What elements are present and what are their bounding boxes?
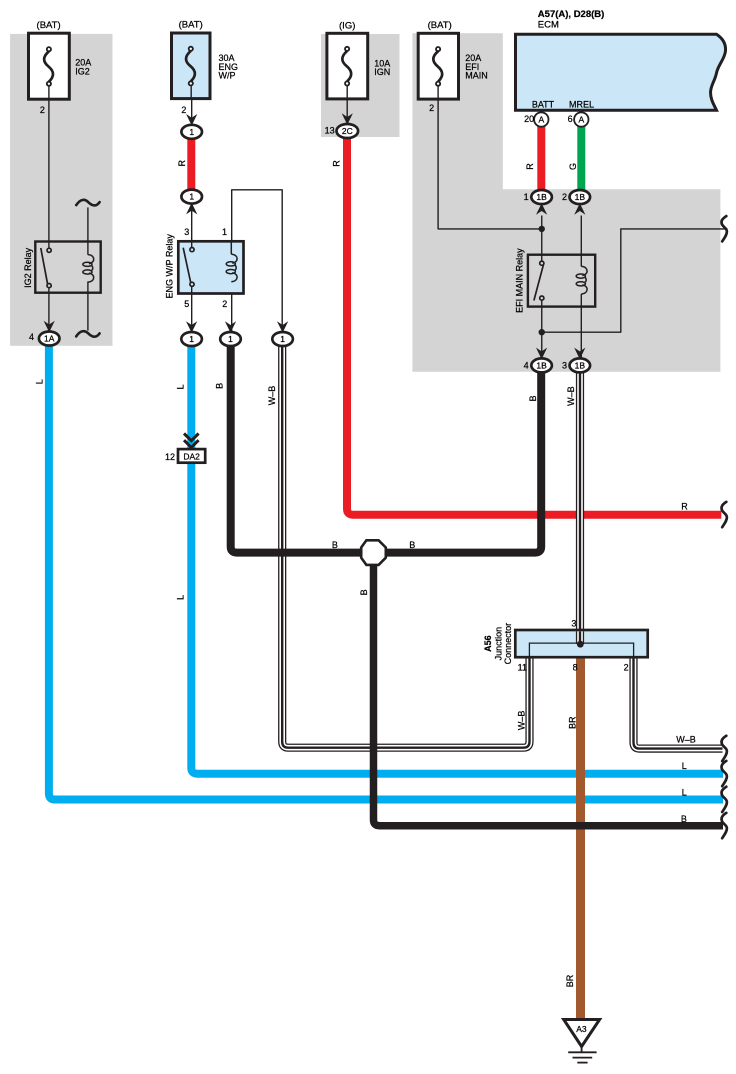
svg-text:EFI MAIN Relay: EFI MAIN Relay (515, 248, 525, 313)
svg-text:B: B (681, 814, 687, 824)
cut squiggle right edge (L lower) (722, 787, 727, 812)
svg-text:A: A (578, 115, 584, 125)
connector DA2 box (178, 449, 205, 463)
wire B (black) octagon junction to EFI relay 4(1B) (386, 372, 541, 553)
coil continuation squiggle top (IG2) (76, 200, 99, 206)
wire L (blue) ENG W/P to DA2 (187, 346, 195, 450)
wire fuse IG2 pin2 to IG2 relay switch (48, 86, 50, 248)
arrow up below connector (to ENG W/P relay) (186, 203, 197, 215)
svg-text:DA2: DA2 (183, 451, 200, 461)
svg-text:1B: 1B (575, 360, 586, 370)
svg-text:A56: A56 (483, 635, 493, 652)
relay K3 EFI MAIN Relay (528, 255, 595, 307)
arrow down into connector (ENG W/P pin5) (186, 321, 197, 333)
connector oval 1B (pin4) (531, 358, 552, 372)
svg-text:IG2: IG2 (75, 66, 90, 76)
svg-text:B: B (409, 540, 415, 550)
svg-text:2C: 2C (342, 126, 353, 136)
gray panel (EFI MAIN fuse + relay block) (412, 33, 720, 372)
svg-text:Connector: Connector (503, 623, 513, 665)
ECM pin 6 circle A (574, 112, 588, 126)
connector oval 1 (W-B branch) (272, 332, 293, 346)
ECM pin 20 circle A (534, 112, 548, 126)
wire node to EFI relay switch (541, 216, 543, 262)
svg-text:3: 3 (562, 361, 567, 371)
wire G (green) ECM MREL (577, 126, 585, 192)
connector oval 1 (ENG W/P pin5) (181, 332, 202, 346)
svg-text:BATT: BATT (532, 99, 555, 109)
svg-text:A57(A), D28(B): A57(A), D28(B) (538, 9, 605, 20)
arrow down into 4(1B) (536, 348, 547, 360)
THIN WIRES (49, 86, 728, 360)
svg-text:B: B (215, 383, 225, 389)
connector oval 1B (pin1) (531, 190, 552, 204)
wire fuse ENG W/P pin2 to connector (191, 99, 193, 126)
ground hatching (568, 1047, 596, 1063)
svg-text:4: 4 (524, 361, 529, 371)
svg-text:2: 2 (40, 105, 45, 115)
svg-text:W–B: W–B (676, 735, 696, 745)
svg-text:BR: BR (568, 716, 578, 729)
connector oval 1B (pin2) (570, 190, 591, 204)
svg-text:R: R (525, 163, 535, 170)
wire IG2 relay coil top branch (87, 207, 89, 254)
connector oval 1 (to ENG W/P relay) (181, 190, 202, 204)
svg-text:L: L (682, 788, 687, 798)
svg-text:B: B (528, 395, 538, 401)
svg-text:1B: 1B (536, 192, 547, 202)
svg-text:Junction: Junction (493, 627, 503, 661)
svg-text:12: 12 (165, 452, 175, 462)
svg-text:4: 4 (29, 332, 34, 342)
svg-text:W–B: W–B (566, 386, 576, 406)
junction node dot (EFI relay out) (539, 329, 545, 335)
wire ENG W/P relay pin5 to connector (191, 286, 193, 333)
svg-text:MREL: MREL (569, 99, 594, 109)
svg-text:L: L (175, 384, 185, 389)
wire IG2 relay coil bottom branch (87, 281, 89, 330)
svg-text:A: A (538, 115, 544, 125)
wire W-B from A56 pin 2 to right edge (634, 657, 723, 749)
arrow down into 3(1B) (574, 348, 585, 360)
svg-text:ECM: ECM (538, 19, 559, 30)
fuse F1 20A IG2 (29, 33, 70, 100)
svg-text:1: 1 (189, 192, 194, 202)
COLORED WIRES (49, 126, 723, 1020)
svg-text:W–B: W–B (517, 711, 527, 731)
svg-text:MAIN: MAIN (465, 70, 488, 80)
wire R (red) from 2C to right edge (347, 138, 721, 515)
svg-text:R: R (177, 160, 187, 167)
arrow up below 2(1B) (574, 203, 585, 215)
fuse F2 30A ENG W/P (172, 33, 211, 100)
svg-text:1: 1 (280, 334, 285, 344)
connector oval 1A (39, 124, 590, 372)
wire fuse IGN pin13 to connector 2C (346, 86, 348, 127)
svg-text:3: 3 (571, 619, 576, 629)
svg-text:2: 2 (222, 299, 227, 309)
svg-text:B: B (359, 589, 369, 595)
cut squiggle right edge (EFI branch) (722, 216, 727, 241)
wire W-B from ENG W/P column to A56 pin 11 (282, 346, 529, 748)
svg-text:A3: A3 (576, 1024, 587, 1034)
fuse F4 20A EFI MAIN (418, 33, 458, 100)
svg-text:1: 1 (228, 334, 233, 344)
arrow up below 1(1B) (536, 203, 547, 215)
arrow down into connector (fuse ENG W/P) (186, 114, 197, 126)
connector oval 1 (ENG W/P pin2) (220, 332, 241, 346)
gray panel (IG fuse block) (321, 34, 400, 137)
cut squiggle right edge (W-B) (722, 736, 727, 761)
svg-text:W/P: W/P (219, 70, 236, 80)
arrow down into 2C (342, 113, 353, 125)
fuse F3 10A IGN (327, 33, 368, 100)
wire EFI relay switch to connector 4(1B) (541, 300, 543, 360)
wire ENG W/P relay coil pin1 branch (232, 190, 283, 333)
svg-text:20: 20 (524, 114, 534, 124)
svg-text:2: 2 (429, 103, 434, 113)
svg-text:R: R (332, 160, 342, 167)
svg-text:W–B: W–B (267, 386, 277, 406)
svg-text:1: 1 (222, 227, 227, 237)
connector DA2 chevrons (184, 434, 199, 448)
wire connector 2(1B) to EFI relay coil (580, 216, 582, 267)
svg-text:L: L (682, 761, 687, 771)
svg-text:2: 2 (624, 663, 629, 673)
connector oval 2C (337, 124, 359, 138)
svg-text:B: B (332, 540, 338, 550)
connector oval 1 (fuse ENG W/P top) (181, 125, 202, 139)
octagon junction node B (361, 540, 386, 565)
svg-text:2: 2 (562, 192, 567, 202)
wire connector to ENG W/P relay pin3 (191, 203, 193, 248)
connector oval 1B (pin3) (570, 358, 591, 372)
gray panel left (IG2 relay block) (10, 34, 112, 346)
svg-text:BR: BR (565, 974, 575, 987)
junction node dot (EFI feed) (539, 226, 545, 232)
svg-text:L: L (175, 595, 185, 600)
svg-text:(IG): (IG) (339, 21, 355, 32)
junction dot A56 bus (577, 641, 584, 648)
svg-text:13: 13 (325, 125, 335, 135)
svg-text:2: 2 (181, 105, 186, 115)
svg-text:1: 1 (189, 334, 194, 344)
cut squiggle right edge (L upper) (722, 761, 727, 786)
svg-text:1B: 1B (575, 192, 586, 202)
wire L (blue) from IG2 relay 1A to right edge (49, 345, 723, 800)
wire L (blue) DA2 to right edge (191, 463, 723, 774)
svg-text:L: L (34, 379, 44, 384)
svg-text:3: 3 (184, 227, 189, 237)
wire branch to right edge (542, 229, 728, 332)
cut squiggle right edge (B) (722, 813, 727, 838)
cut squiggle right edge (R) (722, 502, 727, 527)
svg-text:(BAT): (BAT) (179, 20, 203, 31)
svg-text:IG2 Relay: IG2 Relay (23, 247, 33, 288)
svg-text:1B: 1B (536, 360, 547, 370)
svg-text:1: 1 (189, 127, 194, 137)
junction connector A56 (515, 630, 647, 657)
wire W-B from EFI relay 3(1B) to A56 pin 3 (576, 372, 584, 643)
svg-text:IGN: IGN (374, 67, 390, 77)
arrow down into connector (ENG W/P pin2) (225, 321, 236, 333)
ECM box U1 (A57(A), D28(B)) (516, 34, 726, 110)
svg-text:G: G (568, 163, 578, 170)
relay K1 IG2 Relay (35, 242, 100, 293)
svg-text:5: 5 (184, 299, 189, 309)
svg-text:(BAT): (BAT) (37, 20, 61, 31)
svg-text:(BAT): (BAT) (428, 20, 452, 31)
wire R (red) fuse ENG W/P column (187, 139, 195, 191)
wire BR (brown) A56 pin 8 to ground A3 (576, 657, 585, 1020)
ground A3 triangle (564, 1020, 600, 1047)
svg-text:ENG W/P Relay: ENG W/P Relay (165, 234, 175, 299)
svg-text:R: R (681, 502, 688, 512)
svg-text:6: 6 (568, 114, 573, 124)
wire B (black) ENG W/P to octagon junction (231, 346, 361, 553)
svg-text:1A: 1A (44, 334, 55, 344)
wire EFI relay coil to connector 3(1B) (580, 294, 582, 360)
wire IG2 relay switch to connector 1A (48, 288, 50, 333)
wire ENG W/P relay coil pin2 to connector (231, 281, 233, 333)
svg-text:8: 8 (573, 663, 578, 673)
relay K2 ENG W/P Relay (178, 241, 243, 293)
svg-text:1: 1 (524, 192, 529, 202)
wire R (red) ECM BATT (537, 126, 545, 192)
wire fuse EFI MAIN pin2 to EFI relay node (438, 86, 542, 229)
arrow down into connector (W-B branch) (277, 321, 288, 333)
svg-text:11: 11 (518, 663, 527, 673)
arrow down into 1A (44, 321, 55, 333)
coil continuation squiggle bottom (IG2) (76, 331, 99, 337)
wire B (black) octagon junction to right edge (374, 565, 724, 826)
